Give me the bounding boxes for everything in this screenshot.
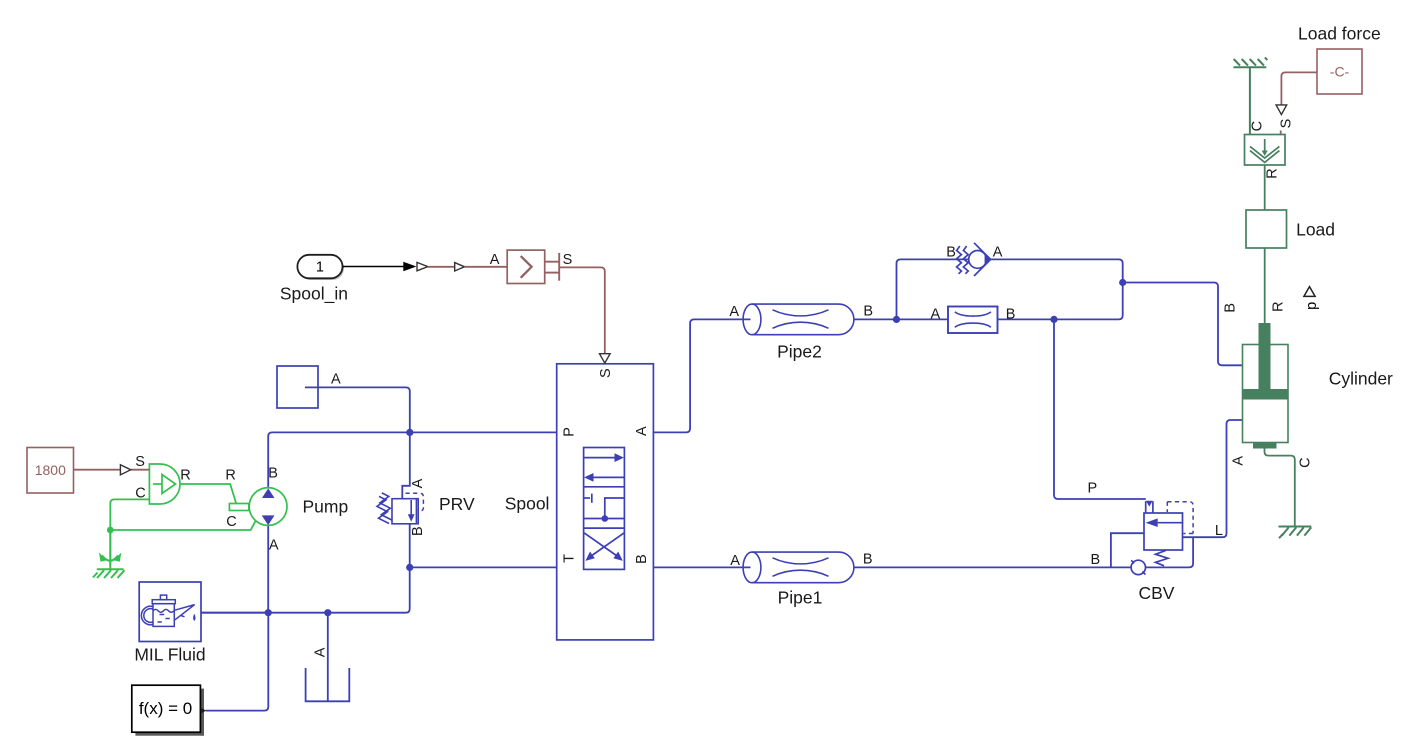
node C green junction: [107, 527, 114, 534]
annotation p (pressure): [1304, 287, 1315, 297]
svg-text:R: R: [1265, 168, 1281, 178]
valve CBV counterbalance valve: [1131, 501, 1182, 574]
svg-text:B: B: [268, 465, 278, 481]
svg-text:C: C: [226, 514, 236, 530]
svg-text:MIL Fluid: MIL Fluid: [134, 645, 205, 665]
svg-text:B: B: [863, 552, 873, 568]
wire source R to Pump R shaft: [180, 484, 236, 504]
wire tank return line (bottom): [200, 567, 409, 612]
svg-text:R: R: [1270, 301, 1286, 311]
svg-text:R: R: [225, 468, 235, 484]
source ideal force source: [1245, 135, 1286, 166]
svg-text:L: L: [1215, 523, 1223, 539]
svg-text:A: A: [634, 426, 650, 436]
wire Pump A down to return line: [267, 517, 269, 613]
check valve: [957, 243, 991, 276]
wire check valve branch (up and across): [897, 259, 969, 319]
wire Pump B to Spool P (P line): [268, 432, 557, 497]
wire Spool_in signal: [343, 266, 405, 268]
block Load (mass): [1246, 210, 1287, 248]
wire CBV check branch to L line: [1146, 537, 1194, 567]
svg-text:R: R: [180, 468, 190, 484]
tank block (square): [277, 366, 318, 408]
solver block f(x) = 0: [200, 689, 204, 736]
node T-line junction: [406, 564, 413, 571]
svg-text:Load: Load: [1296, 220, 1335, 240]
svg-text:Spool_in: Spool_in: [280, 284, 348, 305]
svg-text:1: 1: [316, 260, 324, 276]
arrow into Spool S: [600, 354, 611, 363]
svg-text:Pipe2: Pipe2: [777, 342, 822, 362]
svg-text:A: A: [729, 304, 739, 320]
source U1 ideal angular velocity source: [149, 464, 180, 504]
arrow into source S: [120, 465, 130, 475]
svg-text:B: B: [863, 304, 873, 320]
svg-text:A: A: [331, 372, 341, 388]
orifice (local restriction): [948, 307, 998, 334]
svg-text:PRV: PRV: [439, 494, 475, 514]
wire -C- to force source S: [1281, 72, 1317, 104]
arrow into force source S: [1276, 105, 1287, 115]
valve Spool 4-way directional valve block: [557, 364, 654, 640]
svg-text:S: S: [563, 252, 573, 268]
node orifice B junction: [1050, 316, 1057, 323]
pipe Pipe2: [743, 304, 854, 335]
wire Pipe2 B to junction: [854, 318, 897, 320]
svg-text:B: B: [1091, 552, 1101, 568]
svg-text:A: A: [490, 252, 500, 268]
port marker f(x) output: [201, 708, 206, 714]
wire C node to Pump C: [110, 521, 255, 530]
wire orifice junction up to merge junction: [1054, 283, 1123, 320]
svg-text:Cylinder: Cylinder: [1329, 369, 1393, 389]
svg-text:A: A: [993, 244, 1003, 260]
svg-text:P: P: [1088, 481, 1098, 497]
constant block 1800: [27, 448, 74, 494]
wire Cylinder C to ground: [1265, 449, 1295, 527]
svg-text:S: S: [1278, 119, 1294, 129]
wire Pipe1 B to CBV B: [854, 566, 1132, 568]
svg-text:B: B: [634, 554, 650, 564]
svg-text:f(x) = 0: f(x) = 0: [139, 699, 192, 718]
wire Spool B to Pipe1 A: [653, 566, 750, 568]
block Load force constant -C-: [1317, 49, 1362, 94]
wire orifice B to junction: [998, 318, 1055, 320]
wire junction to orifice A: [897, 318, 949, 320]
node P-line junction: [406, 429, 413, 436]
wire MIL Fluid port: [201, 612, 268, 614]
wire force source R to Load: [1264, 165, 1266, 210]
wire Spool A up to Pipe2 A: [653, 319, 750, 432]
reservoir (bottom tank): [306, 668, 350, 701]
svg-text:Load force: Load force: [1298, 23, 1381, 43]
cylinder (single-acting actuator): [1243, 345, 1289, 443]
pipe Pipe1: [743, 552, 854, 583]
valve PRV pressure relief valve: [377, 493, 418, 524]
node pump return junction: [265, 609, 272, 616]
converter Simulink-PS: [507, 250, 545, 283]
wire tank A to P-line junction: [305, 387, 410, 432]
svg-text:B: B: [1006, 307, 1016, 323]
svg-text:A: A: [313, 647, 329, 657]
wire Spool T to T-line junction: [410, 566, 557, 568]
shaft coupling: [229, 504, 248, 511]
ground (translational reference, bottom right): [1279, 527, 1312, 539]
wire PRV port A: [402, 432, 410, 498]
svg-text:C: C: [1298, 457, 1314, 467]
svg-text:Spool: Spool: [505, 494, 550, 514]
wire source C to ground: [110, 499, 149, 564]
svg-text:B: B: [946, 244, 956, 260]
node merge junction: [1119, 279, 1126, 286]
svg-text:S: S: [135, 454, 145, 470]
wire converter S to Spool S: [559, 267, 605, 353]
svg-text:A: A: [931, 307, 941, 323]
svg-text:1800: 1800: [35, 462, 66, 478]
wire solver f(x)=0 to return line: [206, 613, 269, 711]
wire PRV port B: [409, 524, 411, 568]
wire 1800 to source S: [74, 469, 120, 471]
svg-text:-C-: -C-: [1330, 64, 1350, 80]
svg-text:A: A: [269, 538, 279, 554]
node reservoir junction: [324, 609, 331, 616]
input port Spool_in: [299, 257, 344, 281]
svg-text:CBV: CBV: [1139, 583, 1175, 603]
pump (fixed-displacement pump): [249, 488, 287, 526]
node Pipe2 B junction: [893, 316, 900, 323]
svg-text:C: C: [1249, 121, 1265, 131]
svg-text:A: A: [730, 553, 740, 569]
svg-text:T: T: [561, 554, 577, 563]
svg-text:Pump: Pump: [303, 497, 349, 517]
block MIL Fluid (custom hydraulic fluid): [139, 582, 201, 642]
wire CBV B branch up into valve body: [1111, 533, 1144, 567]
wire reservoir drop pipe: [327, 613, 329, 702]
wire merge junction to Cylinder B: [1123, 283, 1254, 366]
svg-text:Pipe1: Pipe1: [778, 588, 823, 608]
svg-text:A: A: [1231, 456, 1247, 466]
wire to converter A: [428, 266, 454, 268]
ground (translational reference, top right): [1234, 58, 1268, 135]
ground (rotational reference): [93, 530, 125, 578]
svg-text:B: B: [410, 526, 426, 536]
svg-text:C: C: [135, 485, 145, 501]
svg-text:P: P: [561, 427, 577, 437]
svg-text:A: A: [410, 478, 426, 488]
svg-text:S: S: [598, 368, 614, 378]
wire CBV L to Cylinder A: [1183, 420, 1254, 537]
wire Load R to Cylinder rod: [1264, 248, 1266, 324]
wire junction down to CBV P: [1054, 319, 1146, 499]
svg-text:p: p: [1304, 302, 1320, 310]
svg-text:B: B: [1223, 303, 1239, 313]
